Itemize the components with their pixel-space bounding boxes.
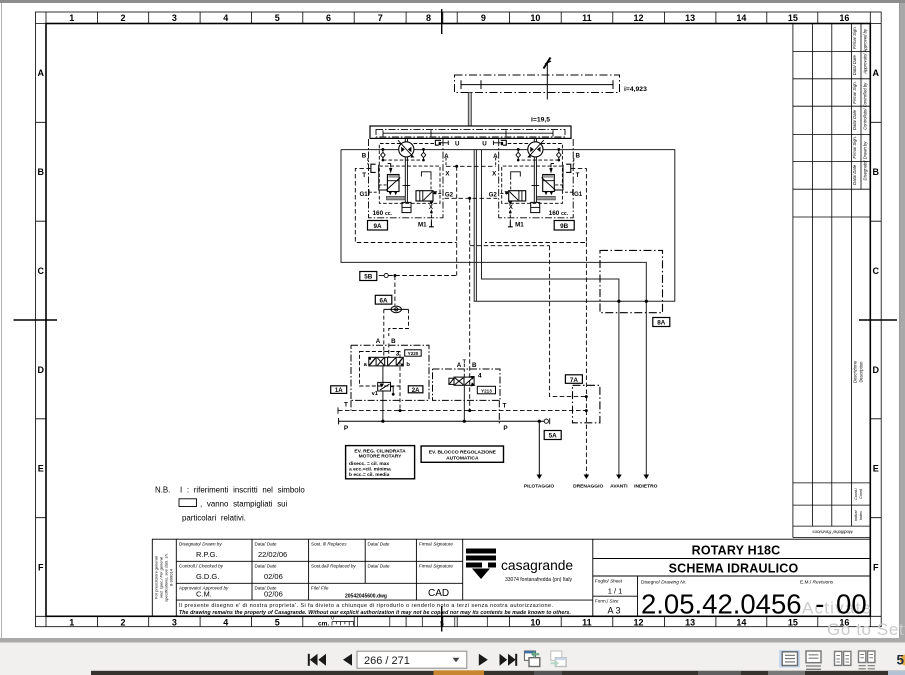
5B dashed line xyxy=(388,275,456,277)
svg-text:DRENAGGIO: DRENAGGIO xyxy=(573,483,603,489)
two page layout icon xyxy=(835,651,851,665)
svg-text:MOTORE ROTARY: MOTORE ROTARY xyxy=(359,453,403,459)
junction node at INDIETRO tap xyxy=(645,300,648,303)
svg-text:Y220: Y220 xyxy=(408,351,419,356)
svg-text:A: A xyxy=(37,68,44,78)
svg-text:3: 3 xyxy=(396,350,400,357)
svg-text:SCHEMA IDRAULICO: SCHEMA IDRAULICO xyxy=(669,562,799,576)
7A reference label xyxy=(565,375,582,384)
gearbox i=19,5 shaft line xyxy=(383,130,553,136)
left subsystem dashed boundary xyxy=(355,169,456,243)
svg-text:G2: G2 xyxy=(445,192,454,199)
svg-text:10: 10 xyxy=(530,13,540,23)
P end plug symbol xyxy=(544,418,550,424)
svg-text:G.D.G.: G.D.G. xyxy=(196,572,219,581)
node valve4 on P xyxy=(463,420,466,423)
title block left rotated note xyxy=(154,553,174,602)
unit 9B port texts xyxy=(482,141,583,229)
line valve3 to shuttle v1 xyxy=(382,366,384,383)
svg-text:Disegnato/ Drawn by: Disegnato/ Drawn by xyxy=(179,542,222,547)
svg-text:The drawing remains the proper: The drawing remains the property of Casa… xyxy=(179,610,571,616)
wire INDIETRO down xyxy=(645,301,647,475)
svg-text:M1: M1 xyxy=(418,222,427,229)
svg-text:T: T xyxy=(503,403,507,410)
svg-text:C: C xyxy=(37,266,44,276)
svg-text:Y213: Y213 xyxy=(481,388,492,393)
node on G2 line xyxy=(468,197,471,200)
7A dash-dot block xyxy=(573,385,600,423)
title block disclaimer xyxy=(179,603,571,616)
node 7A lower xyxy=(585,409,588,412)
svg-text:A: A xyxy=(493,153,498,160)
Y213 label xyxy=(477,386,495,394)
svg-text:i=19,5: i=19,5 xyxy=(531,117,550,124)
page left edge line xyxy=(1,3,3,638)
svg-text:i=4,923: i=4,923 xyxy=(624,86,647,93)
svg-text:Sost.dal/ Replaced by: Sost.dal/ Replaced by xyxy=(311,564,356,569)
2A reference label xyxy=(408,386,423,394)
svg-text:Modifiche/ Revisions: Modifiche/ Revisions xyxy=(812,530,853,535)
toolbar background xyxy=(0,643,905,675)
svg-text:1 / 1: 1 / 1 xyxy=(608,587,623,596)
svg-text:I : riferimenti inscritti ne: I : riferimenti inscritti nel simbolo xyxy=(180,486,305,495)
svg-text:B: B xyxy=(575,152,580,159)
svg-text:Form./ Size: Form./ Size xyxy=(595,599,619,604)
svg-text:Controll./ Checked by: Controll./ Checked by xyxy=(179,564,224,569)
svg-text:B: B xyxy=(391,338,396,345)
G2 link line between motors (dashed) xyxy=(445,197,498,199)
svg-text:2: 2 xyxy=(120,13,125,23)
svg-text:8-999014: 8-999014 xyxy=(169,568,174,586)
v1 side branch xyxy=(391,387,394,395)
previous page button xyxy=(343,654,352,666)
5B reference label xyxy=(360,272,377,281)
previous view icon xyxy=(525,651,540,667)
dashed link lower between drops xyxy=(470,245,550,247)
title block row headers xyxy=(179,542,453,591)
hydraulic motor unit 9A xyxy=(368,138,448,226)
svg-text:Index: Index xyxy=(859,511,863,520)
svg-text:B: B xyxy=(37,167,44,177)
svg-text:266 / 271: 266 / 271 xyxy=(364,655,410,667)
svg-text:3: 3 xyxy=(172,617,177,627)
gearbox i=19,5 dash-dot inner box xyxy=(376,130,565,137)
svg-text:Firma/ Signature: Firma/ Signature xyxy=(419,564,453,569)
svg-text:a ecc.=cil. minima: a ecc.=cil. minima xyxy=(349,467,391,473)
solenoid valve 4 (Y213) body xyxy=(449,377,474,385)
8A reference label xyxy=(653,318,670,327)
main supply wire loop (solid) xyxy=(341,150,675,302)
svg-text:5: 5 xyxy=(440,621,444,628)
taskbar orange app segment xyxy=(434,670,485,675)
svg-text:D: D xyxy=(37,365,44,375)
revision strip grid (right side) xyxy=(793,24,870,538)
svg-text:cm.: cm. xyxy=(318,621,329,628)
dashed drop from X line to 5B line xyxy=(456,166,458,275)
svg-text:4: 4 xyxy=(223,13,228,23)
two page continuous layout icon xyxy=(859,651,875,669)
svg-text:PILOTAGGIO: PILOTAGGIO xyxy=(524,483,555,489)
svg-text:7: 7 xyxy=(378,13,383,23)
svg-text:Data/ Date: Data/ Date xyxy=(255,542,277,547)
svg-text:E: E xyxy=(38,464,44,474)
viewer gray strip below page xyxy=(0,638,905,643)
top ruler cell ticks xyxy=(97,12,817,24)
svg-text:1: 1 xyxy=(69,13,74,23)
svg-text:ROTARY H18C: ROTARY H18C xyxy=(692,544,781,558)
svg-text:13: 13 xyxy=(685,13,695,23)
node on P line xyxy=(381,420,384,423)
svg-text:A: A xyxy=(872,68,879,78)
svg-text:Firma/ Sign.: Firma/ Sign. xyxy=(852,81,857,104)
6A reference label xyxy=(375,295,392,304)
svg-text:160 cc.: 160 cc. xyxy=(549,210,569,217)
dashed drop valve3 box to T line xyxy=(399,386,401,411)
5B test plug symbol xyxy=(379,273,389,277)
node drain on T xyxy=(468,409,471,412)
bottom ruler cell ticks xyxy=(97,616,817,626)
svg-text:Coord./: Coord./ xyxy=(854,487,858,500)
viewer top gray bar xyxy=(0,0,905,3)
svg-text:T: T xyxy=(344,401,348,408)
svg-text:F: F xyxy=(873,563,879,573)
svg-text:F: F xyxy=(38,563,44,573)
last page button xyxy=(500,654,518,666)
svg-text:File/ File: File/ File xyxy=(311,585,329,590)
svg-text:B: B xyxy=(472,362,477,369)
left letter strip row ticks xyxy=(36,122,47,517)
svg-text:Firma/ Sign.: Firma/ Sign. xyxy=(852,136,857,159)
output labels xyxy=(524,483,658,489)
svg-text:v1: v1 xyxy=(372,391,378,397)
svg-text:5: 5 xyxy=(275,13,280,23)
svg-text:Go to Setti: Go to Setti xyxy=(827,620,905,639)
svg-text:2: 2 xyxy=(120,617,125,627)
node on 5B line xyxy=(393,274,396,277)
svg-text:P: P xyxy=(344,425,349,432)
1A outer dash-dot box xyxy=(351,345,429,410)
right letter strip row ticks xyxy=(870,122,881,517)
svg-text:B: B xyxy=(362,152,367,159)
svg-text:T: T xyxy=(362,172,366,179)
vertical drive shaft between gearboxes xyxy=(468,93,471,127)
svg-text:Data/ Date: Data/ Date xyxy=(852,164,857,185)
svg-text:G2: G2 xyxy=(489,192,498,199)
bottom ruler numbers xyxy=(69,617,849,627)
title block grid xyxy=(152,539,870,616)
title block values xyxy=(196,550,449,600)
svg-text:14: 14 xyxy=(736,13,746,23)
svg-text:T: T xyxy=(576,172,580,179)
svg-text:8: 8 xyxy=(426,13,431,23)
dashed drain drop from G2 line to T line xyxy=(469,198,471,410)
svg-text:Controllato/ Controlled by: Controllato/ Controlled by xyxy=(863,82,868,130)
svg-text:Foglio/ Sheet: Foglio/ Sheet xyxy=(595,579,623,584)
svg-text:Disegnato/ Drawn by: Disegnato/ Drawn by xyxy=(863,141,868,181)
svg-text:G1: G1 xyxy=(574,191,583,198)
2A inner dashed box xyxy=(360,352,401,387)
svg-text:A: A xyxy=(457,362,462,369)
gearbox input vertical line with pen mark xyxy=(544,58,552,100)
revision strip rotated labels xyxy=(812,26,868,534)
9A reference label xyxy=(368,221,388,231)
valve 4 T dashed stub xyxy=(463,364,465,377)
svg-text:E.M./ Revisions: E.M./ Revisions xyxy=(800,580,834,586)
page right edge line and viewer gray strip xyxy=(900,3,905,642)
svg-text:M1: M1 xyxy=(515,222,524,229)
5A reference label xyxy=(544,431,561,440)
svg-text:33074 fontanafredda (pn) Italy: 33074 fontanafredda (pn) Italy xyxy=(505,577,572,583)
svg-text:U: U xyxy=(455,141,460,148)
svg-text:5: 5 xyxy=(897,653,905,668)
svg-text:Data/ Date: Data/ Date xyxy=(255,564,277,569)
junction node at AVANTI tap xyxy=(617,300,620,303)
next view icon (disabled) xyxy=(551,651,567,667)
valve 4 dash-dot box xyxy=(433,369,501,425)
node on X line xyxy=(455,165,458,168)
svg-text:U: U xyxy=(482,141,487,148)
svg-text:Sost. il/ Replaces: Sost. il/ Replaces xyxy=(311,542,347,547)
PILOTAGGIO line down xyxy=(538,421,540,475)
svg-text:Data/ Date: Data/ Date xyxy=(852,55,857,76)
hydraulic motor unit 9B (mirrored) xyxy=(493,138,573,226)
svg-text:9B: 9B xyxy=(560,223,569,230)
svg-text:6A: 6A xyxy=(379,297,388,304)
svg-text:02/06: 02/06 xyxy=(264,590,283,599)
svg-text:Descrizione: Descrizione xyxy=(853,360,858,383)
svg-text:b ecc.= cil. media: b ecc.= cil. media xyxy=(349,472,390,478)
svg-text:Indice/: Indice/ xyxy=(854,509,858,521)
svg-text:C: C xyxy=(872,266,879,276)
svg-text:2A: 2A xyxy=(412,388,420,394)
dashed drop from 5B line to gauge 6A xyxy=(394,276,396,306)
node on T line at 400 xyxy=(399,409,402,412)
valve 3 solenoid pads xyxy=(369,357,404,366)
svg-text:EV. BLOCCO REGOLAZIONE: EV. BLOCCO REGOLAZIONE xyxy=(429,450,497,456)
P supply line (solid) xyxy=(339,418,544,424)
svg-text:Data/ Date: Data/ Date xyxy=(852,109,857,130)
first page button xyxy=(308,654,326,666)
svg-text:D: D xyxy=(872,365,879,375)
6A gauge symbol xyxy=(384,306,409,313)
svg-text:Approvato/ Approved by: Approvato/ Approved by xyxy=(863,28,868,75)
svg-text:C.M.: C.M. xyxy=(196,590,212,599)
svg-text:4: 4 xyxy=(223,617,228,627)
1A reference label xyxy=(331,386,347,394)
svg-text:16: 16 xyxy=(839,13,849,23)
page dropdown caret xyxy=(453,658,460,663)
zoom percent fragment xyxy=(900,655,905,666)
svg-text:Disegno/ Drawing Nr.: Disegno/ Drawing Nr. xyxy=(641,580,686,586)
svg-text:Data/ Date: Data/ Date xyxy=(368,564,390,569)
next page button xyxy=(479,654,488,666)
gearbox i=4,923 shaft line xyxy=(461,80,613,89)
unit 9A port texts xyxy=(359,141,459,229)
svg-text:A: A xyxy=(444,153,449,160)
8A dash-dot boundary box xyxy=(600,250,663,312)
shuttle valve v1 xyxy=(378,382,391,391)
svg-text:7A: 7A xyxy=(570,377,579,384)
line valve4 to P xyxy=(463,385,465,421)
T return line (dashed) xyxy=(338,407,586,413)
svg-text:AUTOMATICA: AUTOMATICA xyxy=(446,456,479,462)
single page layout icon (active) xyxy=(779,650,800,668)
EV. REG. CILINDRATA legend box xyxy=(346,446,415,479)
svg-text:Data/ Date: Data/ Date xyxy=(368,542,390,547)
taskbar gray segments xyxy=(534,671,562,675)
svg-text:E: E xyxy=(873,464,879,474)
6A branch lines to valve A/B xyxy=(384,309,409,357)
svg-text:disecc. = cil. max: disecc. = cil. max xyxy=(349,461,389,467)
svg-text:N.B.: N.B. xyxy=(155,486,170,495)
svg-text:Coord: Coord xyxy=(859,488,863,499)
svg-text:1: 1 xyxy=(69,617,74,627)
gearbox i=4,923 dash-dot housing xyxy=(455,75,620,93)
svg-text:160 cc.: 160 cc. xyxy=(373,210,393,217)
svg-text:11: 11 xyxy=(582,13,592,23)
svg-text:P: P xyxy=(503,425,508,432)
svg-text:3: 3 xyxy=(172,13,177,23)
top ruler numbers xyxy=(69,13,849,23)
svg-text:20542045600.dwg: 20542045600.dwg xyxy=(345,594,387,600)
svg-text:A 3: A 3 xyxy=(607,606,620,616)
right letter column letters xyxy=(872,68,879,573)
casagrande logo xyxy=(466,549,496,580)
svg-text:Firma/ Signature: Firma/ Signature xyxy=(419,542,453,547)
cm scale in bottom ruler xyxy=(318,616,487,629)
svg-text:Description: Description xyxy=(859,361,864,383)
svg-text:5A: 5A xyxy=(549,433,558,440)
svg-text:22/02/06: 22/02/06 xyxy=(258,550,287,559)
drawing frame inner border xyxy=(46,24,870,617)
right subsystem dashed boundary xyxy=(485,169,586,243)
line v1 to P xyxy=(382,391,384,421)
svg-text:4: 4 xyxy=(478,373,482,380)
continuous layout icon xyxy=(806,651,821,669)
svg-text:Il presente disegno e' di nost: Il presente disegno e' di nostra proprie… xyxy=(179,603,553,609)
svg-text:b: b xyxy=(406,362,410,368)
svg-text:A: A xyxy=(376,338,381,345)
arrowheads at outputs xyxy=(537,475,650,480)
svg-text:9: 9 xyxy=(481,13,486,23)
svg-text:5B: 5B xyxy=(364,274,373,281)
svg-text:AVANTI: AVANTI xyxy=(610,483,628,489)
svg-text:B: B xyxy=(872,167,879,177)
svg-text:CAD: CAD xyxy=(428,588,449,599)
svg-text:casagrande: casagrande xyxy=(501,558,573,573)
svg-text:15: 15 xyxy=(788,13,798,23)
EV. BLOCCO REGOLAZIONE legend box xyxy=(421,446,503,462)
svg-text:R.P.G.: R.P.G. xyxy=(196,550,218,559)
svg-text:particolari relativi.: particolari relativi. xyxy=(182,514,246,523)
taskbar strip xyxy=(91,671,905,675)
svg-text:9A: 9A xyxy=(373,223,382,230)
Y220 label xyxy=(405,350,422,356)
9B reference label xyxy=(554,221,574,231)
svg-text:5: 5 xyxy=(275,617,280,627)
N.B. sample symbol box xyxy=(179,499,197,507)
page number box xyxy=(357,651,467,668)
svg-text:INDIETRO: INDIETRO xyxy=(634,483,658,489)
svg-text:6: 6 xyxy=(326,13,331,23)
dashed drop to 7A xyxy=(550,246,587,397)
valve 4 arrows xyxy=(470,376,475,386)
wire AVANTI down xyxy=(618,301,620,475)
node 7A upper xyxy=(585,395,588,398)
left letter column letters xyxy=(37,68,44,573)
gearbox i=19,5 housing xyxy=(370,126,571,138)
svg-text:Firma/ Sign.: Firma/ Sign. xyxy=(852,26,857,49)
svg-text:1A: 1A xyxy=(335,388,343,394)
X pilot line between motors (dashed) xyxy=(446,165,496,167)
svg-text:02/06: 02/06 xyxy=(264,572,283,581)
solenoid valve 3 (Y220) body xyxy=(369,357,404,366)
svg-text:G1: G1 xyxy=(359,191,368,198)
svg-text:8A: 8A xyxy=(657,320,666,327)
svg-text:, vanno stampigliati sui: , vanno stampigliati sui xyxy=(200,500,288,509)
node PILOTAGGIO tap xyxy=(538,420,541,423)
svg-text:12: 12 xyxy=(633,13,643,23)
svg-text:10: 10 xyxy=(530,617,540,627)
N.B. note xyxy=(155,486,305,523)
dashed drain line to DRENAGGIO xyxy=(585,243,587,476)
svg-text:11: 11 xyxy=(582,617,592,627)
